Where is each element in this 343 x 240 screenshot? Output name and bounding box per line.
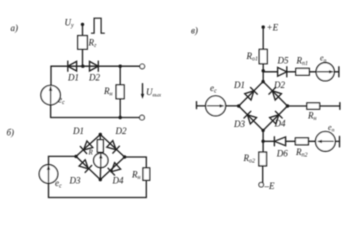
svg-text:D5: D5 — [277, 56, 289, 66]
svg-text:б): б) — [7, 128, 15, 138]
svg-text:в): в) — [191, 26, 198, 36]
svg-text:+E: +E — [267, 23, 279, 33]
svg-text:D6: D6 — [276, 149, 288, 159]
svg-text:R: R — [88, 149, 94, 157]
svg-text:D3: D3 — [233, 119, 245, 129]
svg-text:D2: D2 — [115, 126, 127, 136]
svg-text:а): а) — [11, 23, 19, 33]
svg-text:–E: –E — [264, 181, 276, 191]
svg-text:D1: D1 — [233, 80, 245, 90]
svg-text:D1: D1 — [72, 126, 84, 136]
svg-text:D4: D4 — [274, 119, 286, 129]
svg-text:D3: D3 — [69, 176, 81, 186]
svg-text:D2: D2 — [273, 80, 285, 90]
svg-text:D2: D2 — [88, 73, 100, 83]
svg-text:D4: D4 — [112, 176, 124, 186]
svg-text:D1: D1 — [67, 73, 79, 83]
